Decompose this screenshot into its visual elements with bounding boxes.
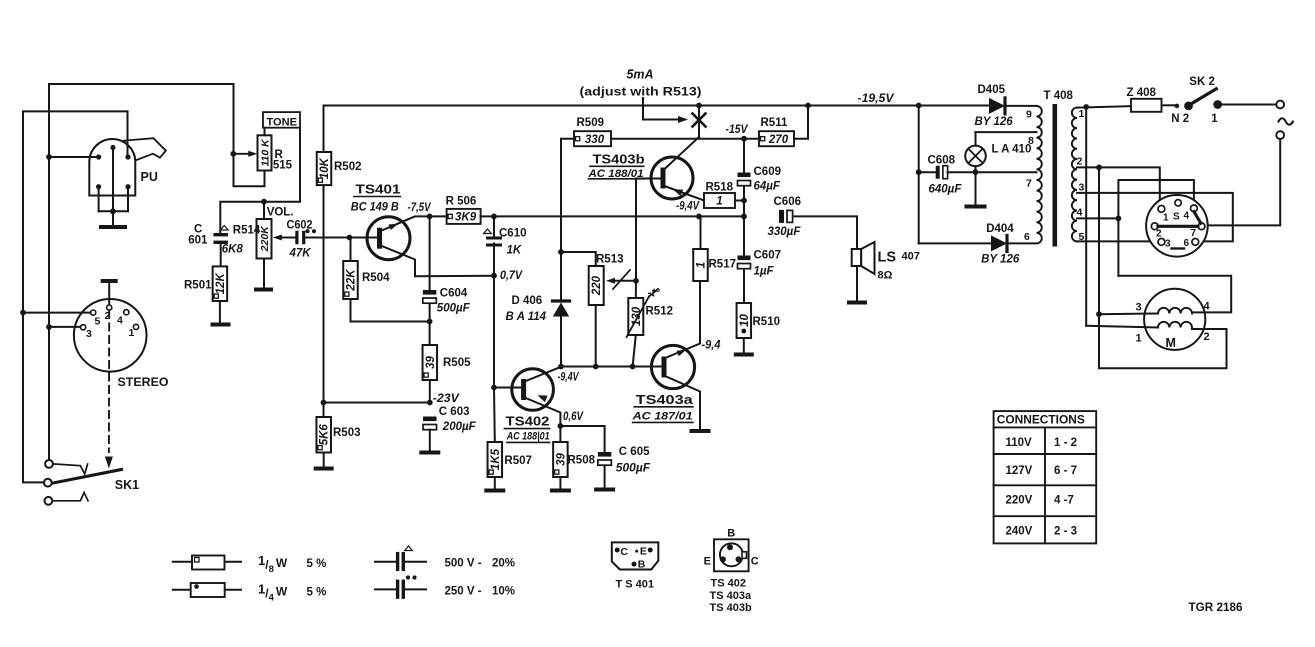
switch SK1 contact 2 <box>44 479 52 487</box>
wire tap5 to S4 pin3 <box>1077 240 1157 242</box>
ground below R507 <box>486 489 503 493</box>
STEREO pin 2 <box>107 305 112 310</box>
wire tap4 stub <box>1077 217 1118 219</box>
resistor R501 <box>213 266 228 301</box>
svg-text:T 408: T 408 <box>1044 90 1074 102</box>
ground below C603 <box>421 451 438 455</box>
node C604 bottom <box>427 319 433 325</box>
node mid rail C607 <box>741 214 747 220</box>
ground below R508 <box>552 489 569 493</box>
svg-text:110V: 110V <box>1006 437 1033 449</box>
svg-text:1 - 2: 1 - 2 <box>1054 437 1077 449</box>
switch SK1 contact 3 <box>45 497 53 505</box>
ground below lamp <box>967 205 985 209</box>
trimmer R513 <box>589 266 604 305</box>
svg-text:6 - 7: 6 - 7 <box>1054 465 1077 477</box>
svg-text:5K6: 5K6 <box>319 424 331 446</box>
svg-text:6: 6 <box>1024 231 1030 243</box>
resistor R517 <box>696 214 702 220</box>
resistor R518 <box>704 193 735 208</box>
voltage selector S4 body <box>1146 195 1208 257</box>
svg-text:TS403b: TS403b <box>593 152 645 167</box>
svg-text:4: 4 <box>117 315 123 327</box>
transistor TS402 <box>512 369 554 411</box>
thermistor R512 <box>635 281 637 298</box>
node R513 top branch <box>558 249 564 255</box>
wire stereo pin5 <box>20 310 26 316</box>
svg-text:-9,4: -9,4 <box>702 340 722 352</box>
wire C606 to speaker <box>795 216 857 249</box>
R513 wiper arrow <box>614 280 636 282</box>
node TS402 base <box>491 385 497 391</box>
svg-text:R504: R504 <box>362 272 390 284</box>
svg-text:LS: LS <box>878 250 897 266</box>
wire lamp top to tap 8 <box>976 131 1037 133</box>
svg-text:R512: R512 <box>646 306 674 318</box>
svg-text:R518: R518 <box>706 182 734 194</box>
wire PU bottom bracket <box>99 210 128 212</box>
svg-text:R514: R514 <box>233 225 261 237</box>
svg-text:2 - 3: 2 - 3 <box>1054 526 1077 538</box>
motor M body <box>1144 289 1205 350</box>
potentiometer R514/VOL 220K <box>263 202 265 219</box>
STEREO pin 4 <box>124 310 129 315</box>
svg-text:10: 10 <box>739 314 751 327</box>
potentiometer R515 wiper arrow <box>233 153 250 155</box>
wire R513 bottom <box>595 305 597 367</box>
svg-text:C609: C609 <box>754 166 782 178</box>
svg-text:1: 1 <box>1163 213 1169 224</box>
capacitor C601 <box>213 233 228 236</box>
diode D406 <box>553 299 570 302</box>
svg-text:1: 1 <box>716 196 722 208</box>
ground below R503 <box>316 467 332 471</box>
motor winding 3-4 <box>1158 308 1192 314</box>
svg-text:1K: 1K <box>507 245 522 257</box>
svg-text:BY 126: BY 126 <box>981 254 1020 266</box>
svg-text:-9,4V: -9,4V <box>558 372 580 384</box>
capacitor C609 <box>743 139 745 173</box>
svg-text:1: 1 <box>129 327 135 339</box>
resistor R509 <box>574 131 611 146</box>
SK1 lower contact wire with caret <box>53 493 89 501</box>
svg-text:R510: R510 <box>753 316 781 328</box>
svg-text:-19,5V: -19,5V <box>858 93 895 105</box>
node base TS401 / R504 <box>347 235 353 241</box>
svg-text:TONE: TONE <box>267 116 298 128</box>
wire R515 bottom loop <box>234 154 265 187</box>
svg-text:D405: D405 <box>978 84 1006 96</box>
capacitor C603 <box>423 417 437 422</box>
svg-text:D 406: D 406 <box>512 295 543 307</box>
wire R504 bottom elbow <box>351 299 430 322</box>
svg-text:R513: R513 <box>596 254 624 266</box>
ground below R510 <box>736 353 752 357</box>
transistor TS403b <box>651 157 693 199</box>
svg-text:B: B <box>638 559 646 571</box>
svg-text:BY 126: BY 126 <box>975 116 1014 128</box>
svg-text:R509: R509 <box>577 117 605 129</box>
capacitor C607 <box>743 216 745 255</box>
svg-text:-7,5V: -7,5V <box>408 202 432 214</box>
S4 link 4-7 <box>1194 212 1201 224</box>
svg-text:CONNECTIONS: CONNECTIONS <box>997 415 1085 427</box>
arrow to X mark <box>643 98 680 120</box>
wire second-left vertical <box>23 111 128 482</box>
node lamp bottom <box>973 169 979 175</box>
svg-text:SK1: SK1 <box>115 478 139 492</box>
wire -15V rail <box>611 138 759 140</box>
wire to PU left pin <box>46 154 52 160</box>
transformer T408 primary winding <box>1072 108 1077 242</box>
connections table <box>994 411 1097 543</box>
node VOL <box>261 199 267 205</box>
legend resistor 1/8W <box>173 561 192 563</box>
capacitor C604 <box>429 216 431 290</box>
svg-text:TGR 2186: TGR 2186 <box>1189 602 1243 614</box>
PU pin bottom-left <box>96 184 101 189</box>
diode D404 <box>919 242 990 244</box>
legend capacitor 250V <box>375 588 396 590</box>
svg-text:-15V: -15V <box>726 124 749 136</box>
ground chassis bar below PU <box>101 225 125 229</box>
capacitor C606 <box>779 210 784 223</box>
svg-text:39: 39 <box>425 356 437 369</box>
svg-text:C608: C608 <box>928 155 956 167</box>
svg-text:B: B <box>727 528 735 540</box>
junction dot tone wiper <box>230 151 236 157</box>
ground below VOL pot <box>256 288 271 292</box>
node supply rail <box>916 103 922 109</box>
svg-text:5 %: 5 % <box>307 558 327 570</box>
svg-text:SK 2: SK 2 <box>1189 76 1215 88</box>
svg-text:C: C <box>751 556 759 568</box>
mains AC symbol <box>1279 118 1293 125</box>
mains terminal lower <box>1276 131 1284 139</box>
svg-text:R503: R503 <box>333 427 361 439</box>
wire left outer vertical to SK1 top contact <box>48 157 50 460</box>
TONE box <box>263 112 300 128</box>
svg-text:1K5: 1K5 <box>490 448 502 470</box>
wire Z408 to SK2 <box>1162 104 1175 106</box>
svg-text:0,6V: 0,6V <box>563 411 584 423</box>
wire 0,7V down to TS402 base <box>493 276 495 388</box>
svg-text:20%: 20% <box>492 558 515 570</box>
wire top-left rail to TONE <box>49 84 234 157</box>
svg-text:640µF: 640µF <box>929 184 963 196</box>
fuse Z408 <box>1131 99 1162 112</box>
svg-text:C 605: C 605 <box>619 446 650 458</box>
resistor R503 <box>323 403 325 418</box>
potentiometer R515 <box>258 135 272 170</box>
pickup needle arm <box>124 138 166 160</box>
wire R501 to ground <box>219 301 221 323</box>
svg-text:N 2: N 2 <box>1171 113 1189 125</box>
wire PU right pin drop <box>127 111 129 156</box>
svg-text:407: 407 <box>902 251 920 263</box>
svg-text:R511: R511 <box>761 117 788 129</box>
wire C608 to tap 7 <box>948 171 1037 173</box>
svg-text:4 -7: 4 -7 <box>1054 495 1074 507</box>
wire C602 to TS401 base <box>306 237 381 239</box>
wire motor pin2 loop <box>1099 314 1227 368</box>
package TS402 pinout <box>714 539 749 571</box>
S4 pin 1 <box>1158 206 1165 213</box>
svg-text:2: 2 <box>1077 156 1083 168</box>
svg-text:4: 4 <box>1204 301 1211 313</box>
svg-text:3: 3 <box>1136 302 1142 314</box>
svg-text:5 %: 5 % <box>307 587 327 599</box>
svg-text:R508: R508 <box>568 455 596 467</box>
S4 pin 3 <box>1158 239 1165 246</box>
svg-text:110 K: 110 K <box>260 138 272 167</box>
wire tap4 to S4 pin4 <box>1118 180 1194 276</box>
svg-text:AC 188|01: AC 188|01 <box>506 431 550 443</box>
svg-text:C: C <box>620 546 628 558</box>
svg-text:330µF: 330µF <box>768 226 802 238</box>
svg-text:270: 270 <box>768 134 789 146</box>
node top rail X <box>696 103 702 109</box>
wire speaker to ground <box>856 266 858 301</box>
svg-text:-t°: -t° <box>648 288 661 300</box>
svg-text:500µF: 500µF <box>437 303 471 315</box>
SK1 fixed contact wire with notch <box>53 464 88 474</box>
svg-text:TS401: TS401 <box>356 181 401 196</box>
svg-text:250 V -: 250 V - <box>445 586 482 598</box>
wire TS403b base <box>636 178 664 180</box>
capacitor C608 <box>916 169 922 175</box>
ground below speaker <box>849 301 865 305</box>
svg-text:22K: 22K <box>346 269 358 292</box>
svg-text:8: 8 <box>1028 135 1034 147</box>
svg-text:PU: PU <box>141 170 158 184</box>
PU pin bottom-right <box>125 184 130 189</box>
svg-text:C604: C604 <box>440 288 468 300</box>
svg-text:1: 1 <box>1079 108 1085 120</box>
svg-text:STEREO: STEREO <box>118 375 169 389</box>
wire D406 to -9,4V rail <box>560 317 562 367</box>
capacitor C602 <box>295 231 298 245</box>
S4 pin 4 <box>1191 205 1198 212</box>
svg-text:TS 402: TS 402 <box>711 578 746 590</box>
svg-text:TS402: TS402 <box>506 414 550 429</box>
ground below TS403a emitter <box>692 429 709 433</box>
transistor TS403a <box>651 345 694 388</box>
STEREO chassis bar <box>103 279 116 283</box>
wire -9,4V rail <box>561 366 665 368</box>
svg-text:601: 601 <box>188 235 208 247</box>
node R512 bottom <box>630 364 636 370</box>
svg-text:1: 1 <box>1211 113 1218 125</box>
svg-text:C607: C607 <box>754 250 782 262</box>
svg-text:5mA: 5mA <box>627 68 654 82</box>
wire X vertical to TS403b collector <box>698 106 700 138</box>
potentiometer VOL wiper arrow <box>280 237 295 239</box>
svg-text:220: 220 <box>591 275 603 296</box>
svg-text:BC 149 B: BC 149 B <box>351 201 399 213</box>
svg-text:L A 410: L A 410 <box>992 144 1032 156</box>
svg-text:127V: 127V <box>1006 465 1033 477</box>
svg-text:1: 1 <box>696 262 708 268</box>
node R513 bottom <box>593 364 599 370</box>
STEREO pin 5 <box>91 310 96 315</box>
svg-text:TS 403a: TS 403a <box>710 590 752 602</box>
svg-text:220K: 220K <box>259 225 271 253</box>
wire TONE box right side down to VOL node <box>264 128 300 202</box>
svg-text:64µF: 64µF <box>754 181 781 193</box>
svg-text:R507: R507 <box>504 455 532 467</box>
svg-text:39: 39 <box>555 453 567 466</box>
TS401 emitter line <box>381 246 416 277</box>
transistor TS401 <box>367 217 410 260</box>
STEREO pin 3 <box>81 325 86 330</box>
svg-text:7: 7 <box>1026 178 1032 190</box>
legend capacitor 500V <box>375 561 396 563</box>
node 0,7V <box>491 273 497 279</box>
svg-text:3: 3 <box>86 328 92 340</box>
svg-text:1µF: 1µF <box>754 266 775 278</box>
wire tap2 to S4 pin1 <box>1099 167 1160 205</box>
TS403a collector line <box>664 281 700 359</box>
wire tap3 to S4 pin6 loop <box>1077 193 1233 242</box>
svg-text:E: E <box>640 546 647 558</box>
package TS401 pinout <box>612 542 659 569</box>
svg-text:R501: R501 <box>184 280 212 292</box>
S4 link 2-7 <box>1158 225 1198 228</box>
svg-text:0,7V: 0,7V <box>500 270 523 282</box>
svg-text:C 603: C 603 <box>439 406 470 418</box>
node -23V right <box>427 400 433 406</box>
resistor R504 <box>350 238 352 262</box>
S4 pin 6 <box>1192 239 1199 246</box>
X break mark <box>693 114 706 127</box>
svg-text:R502: R502 <box>334 161 362 173</box>
TS402 emitter line <box>525 398 561 427</box>
capacitor C605 <box>560 426 604 452</box>
diode D405 <box>919 105 988 107</box>
PU pin top-right <box>125 154 130 159</box>
STEREO pin 1 <box>133 324 138 329</box>
svg-text:7: 7 <box>1191 228 1197 239</box>
svg-text:10%: 10% <box>492 586 515 598</box>
svg-text:500µF: 500µF <box>616 461 651 475</box>
loudspeaker LS <box>852 249 862 266</box>
node -23V left <box>321 400 327 406</box>
svg-text:5: 5 <box>95 316 101 328</box>
TS402 collector line <box>525 367 562 382</box>
svg-text:C610: C610 <box>499 228 527 240</box>
lamp LA410 <box>965 146 986 167</box>
wire R505 to -23V node <box>429 380 431 403</box>
wire TONE box to pot <box>264 128 266 136</box>
svg-text:47K: 47K <box>289 248 312 260</box>
motor winding 1-2 <box>1158 322 1192 328</box>
wire C601 to R501 <box>220 244 222 267</box>
svg-text:4: 4 <box>1184 211 1190 222</box>
resistor R502 <box>317 152 332 185</box>
wire R512 bottom <box>633 335 636 367</box>
wire VOL node left to C601 <box>220 202 264 232</box>
node wiper <box>633 278 639 284</box>
svg-text:3: 3 <box>1079 182 1085 194</box>
resistor R508 <box>559 426 561 442</box>
resistor R506 <box>447 209 481 224</box>
svg-text:2: 2 <box>1204 331 1210 343</box>
svg-text:TS 403b: TS 403b <box>710 602 752 614</box>
capacitor C610 <box>493 216 495 236</box>
DIN connector STEREO body <box>74 299 147 372</box>
svg-text:R517: R517 <box>709 259 737 271</box>
wire motor pin1 <box>1086 326 1158 328</box>
svg-text:-9,4V: -9,4V <box>676 201 700 213</box>
PU pin top-left <box>96 154 101 159</box>
svg-text:500 V -: 500 V - <box>445 558 482 570</box>
node C610 top <box>491 214 497 220</box>
svg-text:VOL.: VOL. <box>267 207 294 219</box>
svg-text:200µF: 200µF <box>442 421 477 433</box>
S4 pin 7 <box>1198 223 1205 230</box>
wire R509 left vertical <box>561 139 574 300</box>
S4 key circle <box>1175 200 1181 206</box>
node TS401 collector / C604 <box>427 214 433 220</box>
node R518 right <box>741 198 747 204</box>
wire motor pin3 <box>1096 311 1102 317</box>
ground below C605 <box>596 488 613 492</box>
wire tap1 to Z408 and down <box>1077 106 1131 107</box>
svg-text:E: E <box>704 556 711 568</box>
svg-text:12K: 12K <box>215 272 227 294</box>
mains terminal upper <box>1276 101 1284 109</box>
SK1 lever <box>53 470 122 484</box>
node C609 top <box>741 136 747 142</box>
svg-text:3: 3 <box>1165 239 1171 250</box>
svg-text:8Ω: 8Ω <box>878 270 893 282</box>
wire R511 to top rail <box>794 106 808 139</box>
svg-text:4: 4 <box>1077 207 1083 219</box>
svg-text:(adjust with R513): (adjust with R513) <box>580 87 702 99</box>
node 0,6V <box>558 423 564 429</box>
svg-text:R505: R505 <box>443 357 471 369</box>
svg-text:2: 2 <box>1156 229 1162 240</box>
wire R506 to mid rail <box>481 215 744 217</box>
PU pin center <box>110 145 115 150</box>
node R511 top rail <box>805 103 811 109</box>
svg-text:240V: 240V <box>1006 526 1033 538</box>
wire top rail from R502 <box>324 106 919 153</box>
svg-text:R 506: R 506 <box>446 196 477 208</box>
svg-text:M: M <box>1166 336 1176 350</box>
pickup PU body <box>89 139 135 196</box>
wire tap2 node <box>1077 166 1099 168</box>
dashed mechanical link STEREO to SK1 <box>108 311 110 452</box>
wire TS401 emitter rail <box>415 275 494 278</box>
S4 pin 2 <box>1151 223 1158 230</box>
TS401 collector line <box>381 216 447 231</box>
svg-text:AC 187/01: AC 187/01 <box>631 411 692 423</box>
TS403a emitter line <box>664 376 700 430</box>
svg-text:T S 401: T S 401 <box>616 579 655 591</box>
switch SK1 contact 1 <box>45 460 53 468</box>
svg-text:6K8: 6K8 <box>222 244 244 256</box>
svg-text:S: S <box>1173 212 1180 223</box>
svg-text:D404: D404 <box>986 223 1014 235</box>
svg-text:220V: 220V <box>1006 495 1033 507</box>
transformer T408 secondary winding <box>1037 106 1042 244</box>
resistor R505 <box>429 322 431 346</box>
wire tap2 down to motor pin2 loop <box>1098 167 1100 314</box>
svg-text:C606: C606 <box>774 196 802 208</box>
svg-text:Z 408: Z 408 <box>1127 87 1157 99</box>
